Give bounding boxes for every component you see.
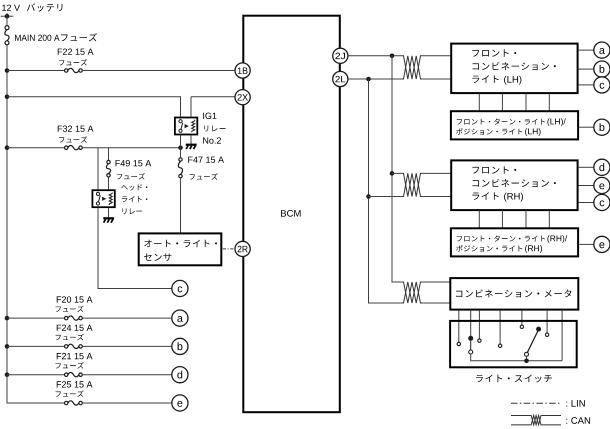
wire F21 line right [82, 374, 171, 376]
connector 2R [235, 241, 250, 256]
wire CAN-H trunk down [392, 56, 401, 282]
fuse F32 15A [65, 146, 83, 150]
contact terminal switch pin1 [457, 342, 460, 345]
connector b LH [594, 61, 610, 77]
connector c LH [594, 77, 610, 93]
connector d [172, 367, 188, 383]
label relay IG1 No.2 [203, 113, 216, 119]
twisted pair CAN to front combination light LH [401, 56, 422, 79]
wire F49 to headlight relay coil [108, 177, 110, 189]
label BCM [281, 210, 301, 217]
label front turn/position light LH [457, 118, 545, 124]
wire F32 line right [82, 147, 180, 149]
wire F20 line right [82, 317, 171, 319]
box light switch border [450, 321, 577, 367]
wire CAN-L trunk down [369, 79, 402, 303]
wire CAN pair to meter box [423, 282, 451, 303]
node F32 tap [5, 145, 10, 150]
fuse F49 15A [106, 160, 110, 177]
wire F32 line left [7, 147, 65, 149]
switch lever open [528, 331, 538, 352]
wire F47 to auto light sensor [180, 178, 182, 232]
wire IG1 contact to F47 [180, 135, 182, 157]
fuse F25 15A [65, 401, 83, 405]
connector 2X [235, 90, 250, 105]
wire LH box to turn/position lamps [479, 93, 549, 110]
node CAN-H branch [390, 54, 395, 59]
wire RH pin e [579, 185, 594, 187]
twisted pair CAN to front combination light RH [401, 173, 422, 196]
wire headlight relay coil to ground [108, 208, 110, 217]
wire CAN-H to RH twist [392, 172, 401, 174]
wire LH pin c [579, 84, 594, 86]
node F24 tap [5, 344, 10, 349]
contact dot switch lever2 target [536, 327, 541, 332]
box front turn/position light LH [451, 111, 578, 139]
switch lever closed [470, 341, 472, 350]
label front combination light LH [472, 49, 516, 56]
connector b turn LH [594, 119, 610, 135]
connector e RH [594, 177, 610, 193]
connector d RH [594, 159, 610, 175]
connector 2L [333, 71, 348, 86]
battery label 12V [2, 5, 20, 11]
wire headlight relay contact to connector c [98, 208, 172, 288]
connector 2J [333, 48, 348, 63]
twisted pair CAN to combination meter [401, 282, 422, 303]
node switch rail junction [524, 359, 529, 364]
wire CAN-L to RH twist [369, 196, 402, 198]
fuse F20 15A [65, 316, 83, 320]
legend LIN line [511, 402, 561, 404]
wire F25 line left [7, 375, 65, 403]
fuse F21 15A [65, 373, 83, 377]
wire branch to F49 [108, 148, 110, 160]
connector a [172, 310, 188, 326]
node F20 tap [5, 316, 10, 321]
contact terminal switch pin3 [478, 339, 481, 342]
node IG1 contact junction [178, 145, 183, 150]
wire LH pin a [579, 49, 594, 51]
ground IG1 relay [186, 145, 197, 149]
switch pivot 1 [469, 350, 473, 354]
fuse MAIN 200A [5, 26, 9, 45]
label fuse F22 [58, 49, 94, 55]
wire battery rail top [6, 13, 8, 26]
wire IG1 coil to ground [190, 135, 192, 143]
wire F24 line right [82, 345, 171, 347]
node IG tap [5, 95, 10, 100]
label front combination light RH [472, 166, 516, 173]
legend CAN pair [511, 416, 561, 425]
label auto light sensor [144, 240, 217, 248]
wire CAN-L from 2L [348, 78, 401, 80]
wire branch to headlight relay contact [97, 148, 99, 190]
wire CAN-H from 2J [348, 55, 401, 57]
label fuse F21 [57, 353, 93, 359]
fuse F22 15A [65, 68, 83, 72]
relay headlight [92, 190, 114, 207]
wire battery to IG1 relay contact [7, 97, 181, 117]
relay IG1 No.2 [175, 118, 197, 135]
connector a LH [594, 42, 610, 58]
switch pivot 2 [525, 352, 529, 356]
wire IG1 coil to 2X [191, 97, 235, 117]
label front turn/position light RH [457, 235, 545, 241]
node CAN-L RH tap [366, 194, 371, 199]
ground headlight relay [103, 218, 114, 222]
label fuse F32 [58, 126, 94, 132]
connector c headlight feed [172, 280, 188, 296]
wire F24 line left [7, 345, 65, 347]
box front combination light RH [451, 160, 577, 210]
wire turn LH pin b [579, 126, 594, 128]
label fuse F47 [188, 157, 224, 163]
box front combination light LH [451, 44, 577, 94]
wire turn RH pin e [579, 243, 594, 245]
box light switch fill [450, 321, 577, 367]
connector e turn RH [594, 236, 610, 252]
battery positive stub wire [1, 15, 14, 17]
box combination meter [450, 278, 578, 310]
box front turn/position light RH [451, 228, 578, 256]
wire F22 line left [7, 70, 65, 72]
label fuse F20 [57, 296, 93, 302]
wire switch common rail [471, 354, 562, 361]
legend label CAN [566, 417, 590, 424]
legend label LIN [566, 400, 584, 407]
label fuse F49 [116, 160, 152, 166]
connector e [172, 395, 188, 411]
wire RH box to turn/position lamps [479, 210, 549, 227]
wire F21 line left [7, 374, 65, 376]
wire LIN auto light sensor to 2R [223, 248, 235, 250]
label light switch [476, 375, 552, 383]
node CAN-L branch [366, 77, 371, 82]
contact terminal switch pin5 [520, 325, 523, 328]
fuse F47 15A [178, 158, 182, 178]
contact terminal switch pin6 [545, 333, 548, 336]
wire meter to light switch pins [459, 310, 562, 361]
box BCM [243, 16, 339, 413]
label headlight relay [121, 184, 147, 190]
wire battery rail [6, 45, 8, 375]
wire F22 line to 1B [82, 70, 235, 72]
wire CAN pair to RH box [423, 173, 452, 196]
wire LH pin b [579, 68, 594, 70]
wire RH pin c [579, 202, 594, 204]
connector b [172, 338, 188, 354]
wire RH pin d [579, 166, 594, 168]
wire CAN pair to LH box [423, 56, 452, 79]
label combination meter [456, 289, 571, 297]
node F21 tap [5, 372, 10, 377]
wire F20 line left [7, 317, 65, 319]
contact terminal switch pin4 [498, 344, 501, 347]
contact dot switch pin2 [468, 336, 473, 341]
label MAIN 200A fuse [15, 35, 59, 41]
node CAN-H RH tap [390, 171, 395, 176]
connector c RH [594, 194, 610, 210]
node F22 tap [5, 68, 10, 73]
fuse F24 15A [65, 344, 83, 348]
label fuse F24 [57, 325, 93, 331]
connector 1B [235, 63, 250, 78]
box auto light sensor [139, 233, 222, 265]
wire F25 line right [82, 402, 171, 404]
node battery B+ [5, 14, 10, 19]
label fuse F25 [57, 381, 93, 387]
